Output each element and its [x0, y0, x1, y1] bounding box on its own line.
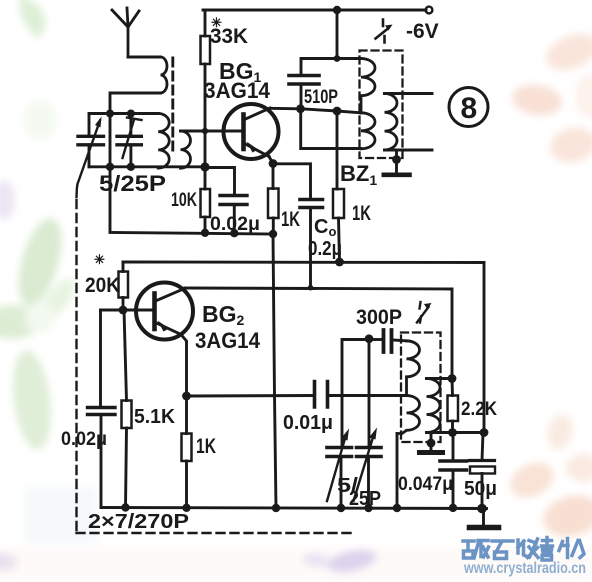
svg-text:33K: 33K [210, 25, 248, 48]
node tank-bottom left rail [106, 163, 114, 171]
wire OSC ground stub [430, 433, 433, 452]
svg-text:0.2μ: 0.2μ [308, 238, 342, 260]
wire supply line y262 [123, 261, 484, 264]
resistor R 2.2K [448, 396, 459, 422]
wire 20K bottom [122, 298, 125, 311]
node BZ1 ground stub [392, 155, 401, 164]
svg-text:BZ1: BZ1 [340, 161, 377, 188]
node rail2 OSC primary [393, 504, 401, 512]
capacitor 300P plates [384, 330, 392, 352]
wire 33K top [204, 10, 207, 36]
wire BZ1 secondary bottom output [385, 149, 433, 152]
inductor L3 base coupling coil [181, 131, 191, 168]
wire C1a top stub [88, 114, 91, 137]
node tank-top junction L1 [106, 110, 114, 118]
svg-text:5.1K: 5.1K [134, 406, 176, 428]
wire 510P top to supply [301, 59, 361, 76]
wire tank bottom [89, 165, 205, 168]
transistor BG2 collector stroke [156, 288, 186, 301]
svg-text:8: 8 [461, 92, 478, 125]
wire L1 bottom to left rail [110, 93, 161, 232]
capacitor 50u electrolytic case [470, 467, 495, 474]
wire gang right bottom [367, 457, 370, 509]
inductor L1 antenna coil [161, 57, 168, 93]
wire jog to 0.02u [205, 168, 235, 196]
wire trimmer C1b top stub [129, 114, 132, 137]
resistor R 1K emitter BG2 [182, 434, 192, 462]
node OSC secondary top [448, 374, 457, 383]
svg-text:0.02μ: 0.02μ [61, 429, 107, 450]
node BG2 emitter junction [182, 392, 191, 401]
wire collector node to BZ1 primary bottom [301, 109, 361, 149]
wire main ground stem [482, 509, 485, 526]
svg-text:0.02μ: 0.02μ [210, 214, 260, 235]
resistor R 5.1K [122, 401, 132, 429]
svg-text:BG2: BG2 [202, 301, 245, 328]
node rail2 0.047u [449, 504, 457, 512]
wire top rail -6V [203, 9, 426, 12]
node BG2 base junction [119, 306, 128, 315]
node rail2 gang right [364, 504, 372, 512]
capacitor C1a variable 5/25P plates [78, 136, 104, 145]
core dashed line antenna transformer [171, 58, 174, 152]
wire trimmer bottom stub [129, 145, 132, 167]
inductor OSC secondary [427, 379, 440, 433]
wire Co bottom to BG2 collector line [309, 208, 312, 288]
wire emitter node to Co [273, 164, 311, 200]
node rail2 BG2 1K [182, 504, 190, 512]
wire tank top [89, 112, 158, 115]
node base bias junction [202, 128, 208, 134]
wire BG2 collector line [185, 288, 452, 379]
wire 10K leads [204, 167, 207, 233]
circled 8 [449, 88, 488, 127]
watermark crystalradio logo [463, 538, 584, 561]
svg-text:1K: 1K [352, 202, 371, 225]
wire oscillator line right [328, 394, 407, 397]
capacitor gang right arrow [354, 434, 375, 501]
node rail2 5.1K [121, 503, 129, 511]
wire BZ1 secondary top output [385, 92, 433, 95]
inductor L2 tank coil [158, 114, 169, 169]
wire 0.02u stage2 bottom [100, 415, 103, 508]
wire emitter oscillator line left [187, 394, 314, 397]
capacitor 0.047u plates [440, 461, 467, 470]
svg-text:510P: 510P [304, 87, 338, 108]
node rail1 10K [201, 229, 209, 237]
node OSC bottom 2.2K [448, 428, 457, 437]
node rail2 50u [477, 504, 487, 514]
wire common vertical drop [273, 234, 276, 508]
transistor BG1 circle [224, 104, 279, 159]
wire 510P bottom to collector node [300, 84, 303, 109]
wire 20K top corner [122, 262, 125, 272]
capacitor gang right section plates [357, 448, 382, 457]
wire L3 top to BG1 base [181, 130, 244, 133]
node OSC bottom supply [480, 428, 489, 437]
node top rail drop [333, 6, 341, 14]
svg-text:20K: 20K [85, 274, 120, 297]
resistor R 33K [201, 36, 211, 64]
svg-text:25P: 25P [349, 488, 381, 510]
svg-text:0.047μ: 0.047μ [398, 474, 453, 495]
capacitor C1b trimmer adjuster [123, 118, 142, 159]
wire rail2 bottom bus [101, 508, 487, 509]
svg-text:1K: 1K [281, 208, 300, 231]
capacitor gang left section plates [327, 448, 352, 457]
node 300P junction [365, 334, 374, 343]
inductor BZ1 primary upper [361, 59, 375, 113]
transformer OSC dashed box [401, 333, 441, 443]
transistor BG2 circle [136, 283, 193, 340]
wire 0.047u leads [452, 433, 455, 508]
wire BG2 1K leads [185, 396, 188, 508]
wire BZ1 ground stub [395, 150, 398, 173]
wire node to right gang section [368, 339, 371, 448]
node supply line junction [335, 258, 344, 267]
wire 1K emitter leads [272, 164, 275, 235]
wire BG1 emitter to node [269, 157, 273, 164]
node OSC ground stub [427, 439, 436, 448]
svg-text:1K: 1K [196, 435, 216, 458]
capacitor 0.02u stage1 plates [220, 196, 247, 205]
svg-text:300P: 300P [356, 306, 402, 329]
wire OSC secondary bottom [427, 431, 485, 434]
capacitor C1a arrow [77, 121, 101, 198]
wire BG2 emitter down [181, 335, 187, 397]
wire 2.2K leads [451, 379, 454, 433]
switch K2 band [417, 302, 429, 323]
wire 5.1K leads [124, 310, 127, 508]
svg-text:www.crystalradio.cn: www.crystalradio.cn [463, 560, 586, 577]
svg-text:Co: Co [314, 216, 336, 239]
node tank-bottom trimmer [127, 163, 135, 171]
dashed gang coupling line [77, 200, 354, 533]
wire 33K to base junction to bias node [204, 64, 207, 167]
capacitor Co plates [300, 200, 323, 208]
resistor R 20K [119, 272, 129, 298]
capacitor gang left arrow [327, 435, 346, 501]
svg-text:0.01μ: 0.01μ [283, 412, 333, 434]
wire OSC secondary top [427, 377, 453, 380]
resistor R 1K decoupling [333, 189, 344, 218]
inductor OSC primary lower [397, 396, 420, 434]
svg-text:2.2K: 2.2K [461, 399, 497, 420]
transistor BG2 emitter stroke with arrow [156, 323, 182, 335]
inductor OSC primary upper [407, 341, 420, 396]
svg-text:-6V: -6V [406, 20, 439, 43]
node collector 510P [296, 104, 305, 113]
svg-text:3AG14: 3AG14 [195, 328, 261, 353]
node supply wire drop [334, 55, 341, 62]
wire top rail drop to supply wire [336, 10, 339, 59]
node rail1 right end [269, 230, 277, 238]
wire node to 300P [369, 338, 382, 341]
svg-text:50μ: 50μ [464, 478, 497, 500]
node rail2 common drop [272, 504, 280, 512]
node rail2 gang left [337, 504, 345, 512]
transistor BG1 emitter stroke with arrow [245, 144, 270, 157]
wire node to left gang section [342, 340, 369, 448]
wire C1a bottom stub [88, 145, 91, 167]
svg-text:5/25P: 5/25P [99, 171, 166, 196]
transformer BZ1 dashed box [360, 51, 403, 159]
wire BG2 base [101, 309, 155, 312]
resistor R 1K emitter BG1 [268, 189, 279, 219]
wire OSC primary bottom to rail2 [396, 434, 399, 509]
capacitor C1b trimmer plates [117, 136, 141, 145]
transistor BG1 base bar [241, 115, 246, 150]
node rail1 0.02u [230, 229, 238, 237]
wire base loop left [99, 310, 102, 408]
node Co collector junction [308, 285, 314, 291]
node tank-top junction trimmer [127, 110, 135, 118]
svg-text:10K: 10K [171, 190, 197, 211]
node collector feed [333, 107, 342, 116]
transistor BG2 base bar [152, 294, 157, 330]
wire 300P to osc primary top [393, 339, 407, 343]
node bias divider junction [200, 162, 209, 171]
svg-text:2×7/270P: 2×7/270P [88, 511, 189, 533]
ground main [470, 525, 499, 531]
node BG1 emitter [269, 159, 278, 168]
wire gang left bottom [340, 457, 343, 509]
terminal -6V open circle [426, 7, 433, 14]
wire BG1 collector bus [270, 108, 361, 113]
wire supply drop right side [483, 263, 486, 433]
wire antenna to L1 [128, 56, 161, 59]
capacitor 0.02u stage2 plates [88, 408, 116, 415]
capacitor 0.01u plates [315, 382, 328, 408]
ground BZ1 [384, 173, 410, 178]
resistor R 10K [201, 189, 211, 217]
transistor BG1 collector stroke [245, 108, 271, 120]
wire 50u leads [482, 433, 483, 509]
inductor BZ1 secondary [385, 94, 398, 150]
capacitor 510P plates [289, 76, 319, 85]
svg-text:✳: ✳ [94, 252, 105, 267]
capacitor 50u electrolytic top plate [470, 459, 495, 462]
ground OSC [420, 450, 443, 455]
svg-text:3AG14: 3AG14 [204, 78, 271, 103]
wire rail1 emitter-ground bus [110, 233, 273, 235]
inductor BZ1 primary lower [361, 113, 375, 149]
antenna [112, 8, 139, 57]
wire decoupling 1K leads [337, 111, 340, 262]
switch K1 power [376, 20, 389, 43]
wire 0.02u bottom stub [233, 205, 236, 234]
